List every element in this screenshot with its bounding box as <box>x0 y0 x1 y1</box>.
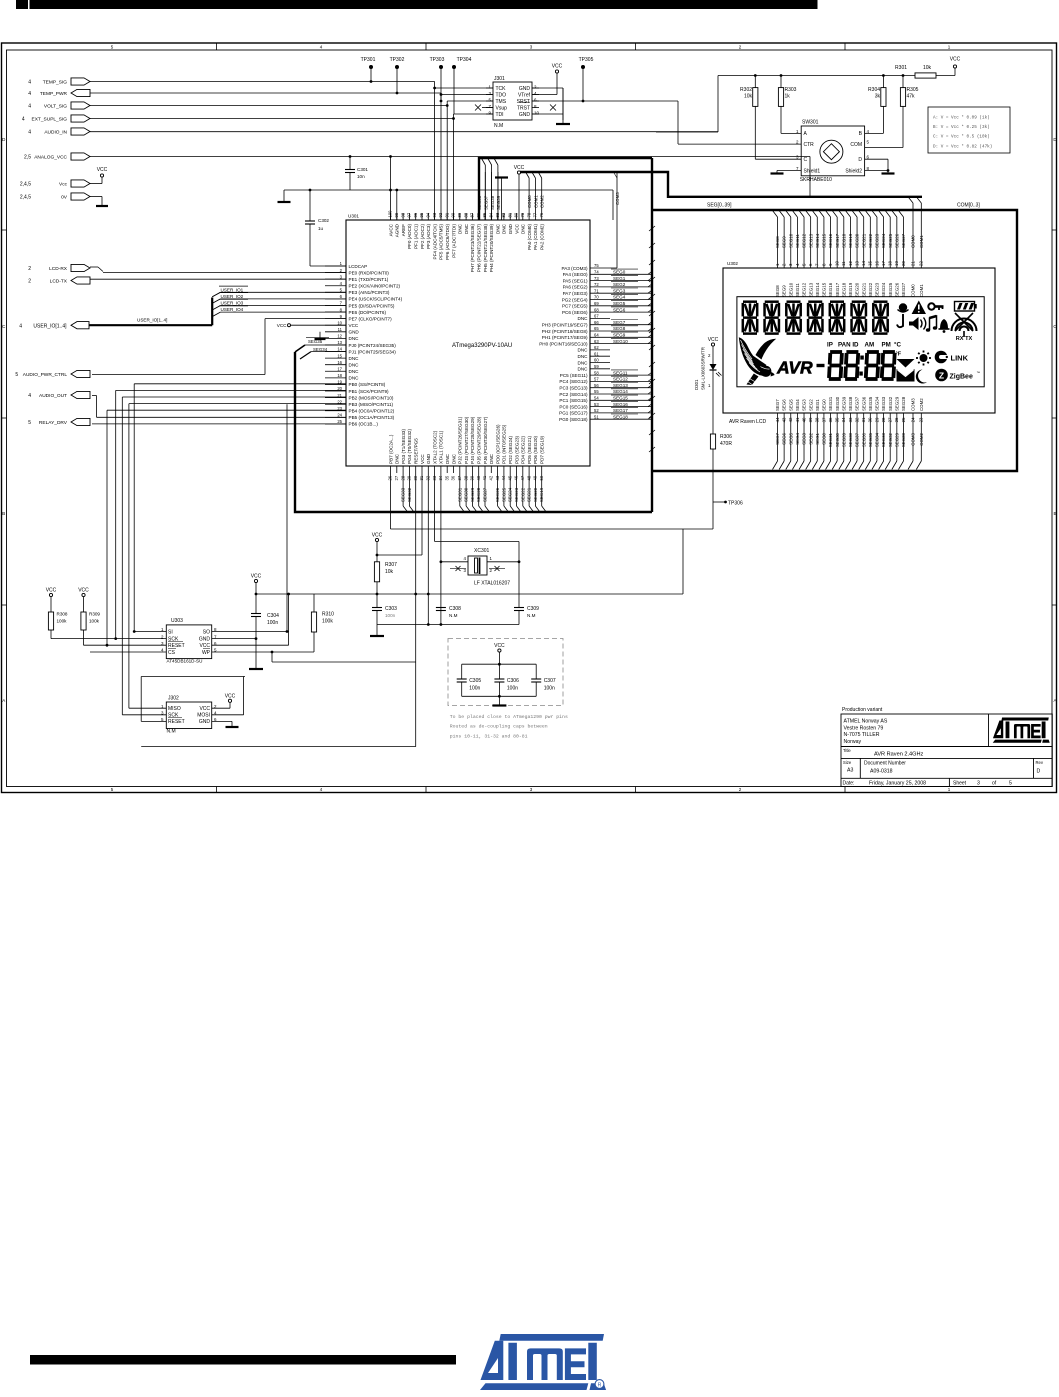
svg-text:RESET: RESET <box>168 719 185 725</box>
svg-text:PF7 (ADC7/TDI): PF7 (ADC7/TDI) <box>451 224 456 258</box>
svg-text:PC3 (SEG13): PC3 (SEG13) <box>559 386 588 391</box>
svg-text:20: 20 <box>901 261 906 266</box>
svg-text:VCC: VCC <box>199 706 210 712</box>
svg-text:DNC: DNC <box>349 356 360 361</box>
svg-text:LF XTAL016207: LF XTAL016207 <box>474 581 510 587</box>
svg-text:SEG5: SEG5 <box>788 432 793 444</box>
svg-text:SEG34: SEG34 <box>875 432 880 447</box>
svg-text:COM2: COM2 <box>919 398 924 411</box>
svg-text:SEG20: SEG20 <box>855 282 860 297</box>
svg-text:USER_IO3: USER_IO3 <box>221 301 244 306</box>
svg-text:PM: PM <box>882 342 891 349</box>
svg-text:VCC: VCC <box>78 588 89 594</box>
svg-text:MOSI: MOSI <box>197 713 210 719</box>
svg-text:C302: C302 <box>318 218 329 223</box>
svg-text:N.M: N.M <box>449 613 458 618</box>
svg-text:Document Number: Document Number <box>864 761 906 767</box>
svg-text:SEG3: SEG3 <box>613 288 626 293</box>
svg-text:PB1 (SCK/PCINT9): PB1 (SCK/PCINT9) <box>349 389 390 394</box>
svg-text:PC2 (SEG14): PC2 (SEG14) <box>559 392 588 397</box>
svg-text:100k: 100k <box>322 619 333 625</box>
svg-text:PAN ID: PAN ID <box>838 342 859 349</box>
svg-text:XTAL1 (TOSC1): XTAL1 (TOSC1) <box>439 430 444 464</box>
svg-text:VCC: VCC <box>225 694 236 700</box>
svg-text:C305: C305 <box>469 678 481 684</box>
svg-text:SEG33: SEG33 <box>881 396 886 411</box>
svg-text:DNC: DNC <box>445 453 450 464</box>
svg-text:GND: GND <box>426 453 431 464</box>
svg-text:56: 56 <box>594 383 599 388</box>
svg-text:28: 28 <box>881 417 886 422</box>
svg-text:10k: 10k <box>923 65 932 71</box>
svg-text:75: 75 <box>594 263 599 268</box>
svg-text:R307: R307 <box>385 562 397 568</box>
svg-text:DNC: DNC <box>495 223 500 234</box>
svg-text:SEG6: SEG6 <box>782 432 787 444</box>
svg-text:A09-0318: A09-0318 <box>870 769 893 775</box>
svg-text:SEG33: SEG33 <box>881 432 886 447</box>
svg-text:10: 10 <box>337 320 342 325</box>
svg-text:10k: 10k <box>744 94 753 100</box>
svg-text:DNC: DNC <box>349 336 360 341</box>
svg-text:VCC: VCC <box>46 588 57 594</box>
svg-text:PB0 (SS/PCINT8): PB0 (SS/PCINT8) <box>349 382 386 387</box>
svg-text:VCC: VCC <box>708 337 719 343</box>
svg-text:C: C <box>804 157 808 163</box>
svg-text:VCC: VCC <box>514 165 525 171</box>
svg-text:36: 36 <box>828 417 833 422</box>
svg-text:DNC: DNC <box>349 376 360 381</box>
svg-text:R309: R309 <box>89 612 100 617</box>
svg-text:SEG19: SEG19 <box>848 233 853 248</box>
svg-text:VCC: VCC <box>97 167 108 173</box>
svg-text:SEG11: SEG11 <box>795 234 800 248</box>
svg-text:SEG18: SEG18 <box>613 414 628 419</box>
svg-text:SEG35: SEG35 <box>868 396 873 411</box>
svg-text:SEG14: SEG14 <box>815 233 820 248</box>
svg-text:29: 29 <box>874 417 879 422</box>
svg-text:DNC: DNC <box>502 223 507 234</box>
svg-text:98: 98 <box>400 212 405 217</box>
svg-text:SEG14: SEG14 <box>815 282 820 297</box>
svg-text:SEG5: SEG5 <box>613 301 626 306</box>
svg-text:LCD-RX: LCD-RX <box>49 266 68 272</box>
svg-text:TDO: TDO <box>496 92 507 98</box>
svg-text:100n: 100n <box>507 686 518 692</box>
svg-text:SEG37: SEG37 <box>855 432 860 447</box>
svg-text:SEG3: SEG3 <box>802 432 807 444</box>
svg-text:SRST: SRST <box>517 99 530 105</box>
svg-text:PG1 (SEG17): PG1 (SEG17) <box>559 411 588 416</box>
svg-text:PE2 (XCK/AIN0/PCINT2): PE2 (XCK/AIN0/PCINT2) <box>349 284 401 289</box>
svg-text:SEG17: SEG17 <box>835 282 840 297</box>
svg-text:AGND: AGND <box>395 223 400 237</box>
svg-text:SEG5: SEG5 <box>788 399 793 411</box>
svg-text:92: 92 <box>438 212 443 217</box>
svg-text:B: V = Vcc * 0.25 (3k): B: V = Vcc * 0.25 (3k) <box>933 125 990 130</box>
svg-text:PJ4 (PCINT28/SEG29): PJ4 (PCINT28/SEG29) <box>470 416 475 464</box>
svg-text:PH5 (PCINT21/SEG38): PH5 (PCINT21/SEG38) <box>483 224 488 273</box>
svg-text:ATMEL Norway AS: ATMEL Norway AS <box>844 719 888 725</box>
svg-text:SEG7: SEG7 <box>775 432 780 444</box>
svg-text:34: 34 <box>841 417 846 422</box>
svg-text:AUDIO_PWR_CTRL: AUDIO_PWR_CTRL <box>23 372 68 378</box>
svg-text:SEG20: SEG20 <box>533 487 538 502</box>
svg-text:4: 4 <box>28 393 31 399</box>
svg-text:Size: Size <box>843 760 852 765</box>
svg-text:PC5 (SEG11): PC5 (SEG11) <box>560 373 588 378</box>
svg-text:ZigBee: ZigBee <box>950 374 973 381</box>
svg-text:5: 5 <box>1009 781 1012 787</box>
svg-text:N.M: N.M <box>527 613 536 618</box>
svg-text:3k: 3k <box>875 94 881 100</box>
svg-text:2,4,5: 2,4,5 <box>20 195 31 201</box>
svg-text:RESET/PG5: RESET/PG5 <box>414 438 419 464</box>
svg-text:SEG9: SEG9 <box>613 333 626 338</box>
svg-text:60: 60 <box>594 358 599 363</box>
svg-text:11: 11 <box>338 327 343 332</box>
svg-text:SEG9: SEG9 <box>782 236 787 248</box>
svg-text:Sheet: Sheet <box>953 781 967 787</box>
svg-text:PF2 (ADC2): PF2 (ADC2) <box>420 224 425 249</box>
svg-text:SEG38: SEG38 <box>848 432 853 447</box>
svg-text:SEG16: SEG16 <box>828 282 833 297</box>
svg-text:100n: 100n <box>469 686 480 692</box>
svg-text:SEG28: SEG28 <box>901 396 906 411</box>
svg-text:PD7 (SEG19): PD7 (SEG19) <box>540 435 545 464</box>
svg-text:Title: Title <box>843 748 851 753</box>
svg-text:10: 10 <box>835 261 840 266</box>
svg-text:17: 17 <box>337 366 342 371</box>
svg-text:SW301: SW301 <box>802 120 819 126</box>
svg-text:SEG4: SEG4 <box>795 399 800 411</box>
svg-text:SEG21: SEG21 <box>861 233 866 248</box>
svg-text:SEG23: SEG23 <box>875 233 880 248</box>
svg-text:VCC: VCC <box>552 64 563 70</box>
svg-text:DNC: DNC <box>578 367 589 372</box>
svg-text:COM0: COM0 <box>911 284 916 297</box>
svg-text:VCC: VCC <box>494 643 505 649</box>
svg-text:RELAY_DRV: RELAY_DRV <box>39 420 68 426</box>
svg-text:CTR: CTR <box>804 142 815 148</box>
svg-text:PB4 (OC0A/PCINT12): PB4 (OC0A/PCINT12) <box>349 409 395 414</box>
svg-text:Shield1: Shield1 <box>804 168 821 174</box>
svg-text:58: 58 <box>594 370 599 375</box>
svg-text:81: 81 <box>507 212 512 217</box>
svg-text:Rev: Rev <box>1036 760 1044 765</box>
svg-text:SEG18: SEG18 <box>841 282 846 297</box>
svg-text:SEG27: SEG27 <box>901 233 906 248</box>
svg-text:VCC: VCC <box>349 323 359 328</box>
svg-text:100n: 100n <box>267 620 278 626</box>
svg-text:SEG8: SEG8 <box>775 236 780 248</box>
svg-text:5: 5 <box>28 420 31 426</box>
svg-text:R303: R303 <box>785 87 797 93</box>
svg-text:PC6 (SEG6): PC6 (SEG6) <box>562 310 588 315</box>
svg-text:PB6 (OC1B...): PB6 (OC1B...) <box>349 422 379 427</box>
svg-text:35: 35 <box>444 475 449 480</box>
svg-text:SKRHABE010: SKRHABE010 <box>800 177 832 183</box>
svg-text:ATmega3290PV-10AU: ATmega3290PV-10AU <box>452 343 512 349</box>
svg-text:SEG26: SEG26 <box>894 282 899 297</box>
svg-text:SEG2: SEG2 <box>808 399 813 411</box>
svg-text:3: 3 <box>977 781 980 787</box>
svg-text:59: 59 <box>594 364 599 369</box>
svg-text:72: 72 <box>594 282 599 287</box>
svg-text:4: 4 <box>28 91 31 97</box>
svg-text:4: 4 <box>28 130 31 136</box>
svg-text:SEG9: SEG9 <box>782 285 787 297</box>
svg-text:PF4 (ADC4/TCK): PF4 (ADC4/TCK) <box>432 224 437 260</box>
svg-text:DNC: DNC <box>464 223 469 234</box>
svg-text:USER_IO4: USER_IO4 <box>221 307 244 312</box>
svg-text:°C: °C <box>894 342 901 349</box>
svg-text:SEG31: SEG31 <box>828 432 833 447</box>
svg-text:GND: GND <box>349 330 360 335</box>
svg-text:Production variant: Production variant <box>842 707 883 713</box>
svg-text:D: V = Vcc * 0.82 (47k): D: V = Vcc * 0.82 (47k) <box>933 144 992 149</box>
svg-text:SEG35: SEG35 <box>308 339 323 344</box>
svg-text:ANALOG_VCC: ANALOG_VCC <box>34 155 67 161</box>
svg-text:RX TX: RX TX <box>956 336 973 342</box>
svg-text:D: D <box>1037 769 1041 775</box>
svg-text:TP306: TP306 <box>728 501 743 507</box>
svg-text:40: 40 <box>801 417 806 422</box>
svg-text:VCC: VCC <box>251 574 262 580</box>
svg-text:TRST: TRST <box>517 105 530 111</box>
svg-text:13: 13 <box>854 261 859 266</box>
svg-text:To be placed close to ATmega12: To be placed close to ATmega1290 pwr pin… <box>450 714 568 720</box>
svg-text:CS: CS <box>168 650 176 656</box>
svg-text:DNC: DNC <box>578 348 589 353</box>
svg-text:96: 96 <box>413 212 418 217</box>
svg-text:SEG30: SEG30 <box>464 487 469 502</box>
svg-text:SEG32: SEG32 <box>407 487 412 502</box>
svg-text:PH0 (PCINT16/SEG10): PH0 (PCINT16/SEG10) <box>539 341 588 346</box>
svg-text:PE0 (RXD/PCINT0): PE0 (RXD/PCINT0) <box>349 270 390 275</box>
svg-text:Date:: Date: <box>843 781 855 787</box>
svg-text:97: 97 <box>407 212 412 217</box>
svg-text:100k: 100k <box>89 619 100 624</box>
svg-text:90: 90 <box>451 212 456 217</box>
svg-text:95: 95 <box>419 212 424 217</box>
svg-text:PD2 (SEG24): PD2 (SEG24) <box>508 435 513 464</box>
svg-text:SEG21: SEG21 <box>861 282 866 297</box>
svg-text:PB7 (OC2A...): PB7 (OC2A...) <box>388 434 393 464</box>
svg-text:DNC: DNC <box>349 369 360 374</box>
svg-text:TEMP_PWR: TEMP_PWR <box>40 91 68 97</box>
svg-text:PH6 (PCINT22/SEG37): PH6 (PCINT22/SEG37) <box>477 224 482 273</box>
svg-text:PA2 (COM2): PA2 (COM2) <box>540 224 545 250</box>
svg-text:N.M: N.M <box>167 729 176 735</box>
svg-text:VTref: VTref <box>518 92 531 98</box>
svg-text:U302: U302 <box>727 261 738 266</box>
svg-text:J302: J302 <box>168 696 179 702</box>
svg-text:SEG10: SEG10 <box>788 282 793 297</box>
svg-text:C303: C303 <box>385 606 397 612</box>
svg-text:COM3: COM3 <box>911 398 916 411</box>
svg-text:38: 38 <box>815 417 820 422</box>
svg-text:57: 57 <box>594 377 599 382</box>
svg-text:100k: 100k <box>57 619 68 624</box>
svg-text:15: 15 <box>337 353 342 358</box>
svg-text:XTAL2 (TOSC2): XTAL2 (TOSC2) <box>432 430 437 464</box>
svg-text:TEMP_SIG: TEMP_SIG <box>43 80 68 86</box>
svg-text:2: 2 <box>28 279 31 285</box>
svg-text:53: 53 <box>594 402 599 407</box>
svg-text:1u: 1u <box>318 226 324 231</box>
svg-text:D: D <box>858 157 862 163</box>
svg-text:TP301: TP301 <box>361 57 376 63</box>
svg-text:VOLT_SIG: VOLT_SIG <box>44 104 67 110</box>
svg-text:SEG24: SEG24 <box>881 282 886 297</box>
svg-text:54: 54 <box>594 396 599 401</box>
svg-text:470R: 470R <box>720 441 732 447</box>
svg-text:Norway: Norway <box>844 739 862 745</box>
svg-text:LCD-TX: LCD-TX <box>50 279 68 285</box>
svg-text:18: 18 <box>337 373 342 378</box>
svg-text:PA6 (SEG2): PA6 (SEG2) <box>563 285 588 290</box>
svg-text:of: of <box>992 781 997 787</box>
svg-text:62: 62 <box>594 345 599 350</box>
svg-text:COM1: COM1 <box>533 195 538 208</box>
svg-text:PJ6 (PCINT30/SEG27): PJ6 (PCINT30/SEG27) <box>483 416 488 464</box>
svg-text:74: 74 <box>594 270 599 275</box>
svg-text:SEG34: SEG34 <box>313 347 328 352</box>
svg-text:C308: C308 <box>449 606 461 612</box>
svg-text:47k: 47k <box>907 94 916 100</box>
svg-text:C: V = Vcc * 0.5 (10k): C: V = Vcc * 0.5 (10k) <box>933 135 990 140</box>
svg-text:100: 100 <box>388 210 393 218</box>
svg-text:SEG38: SEG38 <box>490 195 495 210</box>
svg-text:COM2: COM2 <box>919 432 924 445</box>
svg-text:J301: J301 <box>494 76 505 82</box>
svg-text:PJ1 (PCINT25/SEG34): PJ1 (PCINT25/SEG34) <box>349 349 397 354</box>
svg-text:SEG32: SEG32 <box>888 432 893 447</box>
svg-text:SEG6: SEG6 <box>613 307 626 312</box>
svg-text:C304: C304 <box>267 613 279 619</box>
svg-text:SEG8: SEG8 <box>775 285 780 297</box>
svg-text:COM: COM <box>850 142 862 148</box>
svg-text:PH2 (PCINT18/SEG8): PH2 (PCINT18/SEG8) <box>542 329 588 334</box>
svg-text:71: 71 <box>594 288 599 293</box>
svg-text:C306: C306 <box>507 678 519 684</box>
svg-text:SEG25: SEG25 <box>888 233 893 248</box>
svg-text:B: B <box>2 511 5 516</box>
svg-text:Vsup: Vsup <box>496 105 508 111</box>
svg-text:83: 83 <box>495 212 500 217</box>
svg-text:R308: R308 <box>57 612 68 617</box>
svg-text:SEG29: SEG29 <box>470 487 475 502</box>
svg-text:33: 33 <box>848 417 853 422</box>
svg-text:SO: SO <box>203 629 210 635</box>
svg-text:SEG25: SEG25 <box>888 282 893 297</box>
svg-text:VCC: VCC <box>950 57 961 63</box>
svg-text:PD3 (SEG23): PD3 (SEG23) <box>514 435 519 464</box>
svg-text:COM1: COM1 <box>919 284 924 297</box>
svg-text:91: 91 <box>444 212 449 217</box>
svg-text:SEG16: SEG16 <box>613 402 628 407</box>
svg-text:PG4 (T0/SEG32): PG4 (T0/SEG32) <box>407 429 412 464</box>
svg-text:42: 42 <box>489 475 494 480</box>
svg-text:PH7 (PCINT23/SEG36): PH7 (PCINT23/SEG36) <box>470 224 475 273</box>
svg-text:Vestre Rosten 79: Vestre Rosten 79 <box>844 725 884 731</box>
svg-text:SEG2: SEG2 <box>808 432 813 444</box>
svg-text:27: 27 <box>394 475 399 480</box>
svg-text:2: 2 <box>28 266 31 272</box>
svg-text:10k: 10k <box>385 569 394 575</box>
svg-text:PF3 (ADC3): PF3 (ADC3) <box>426 224 431 249</box>
svg-text:14: 14 <box>861 261 866 266</box>
svg-text:COM[0..3]: COM[0..3] <box>957 203 980 209</box>
svg-text:TCK: TCK <box>496 86 507 92</box>
svg-text:87: 87 <box>470 212 475 217</box>
svg-text:SEG15: SEG15 <box>822 233 827 248</box>
svg-text:100n: 100n <box>385 613 396 618</box>
svg-text:41: 41 <box>795 417 800 422</box>
svg-text:N.M: N.M <box>494 123 503 129</box>
svg-text:12: 12 <box>337 334 342 339</box>
svg-text:USER_IO[1..4]: USER_IO[1..4] <box>137 318 167 323</box>
svg-text:26: 26 <box>894 417 899 422</box>
svg-text:PD6 (SEG20): PD6 (SEG20) <box>533 435 538 464</box>
svg-text:SEG1: SEG1 <box>613 276 626 281</box>
svg-text:1k: 1k <box>785 94 791 100</box>
svg-text:SEG22: SEG22 <box>868 233 873 248</box>
svg-text:22: 22 <box>919 261 924 266</box>
svg-text:SEG36: SEG36 <box>477 195 482 210</box>
svg-text:94: 94 <box>426 212 431 217</box>
svg-text:MISO: MISO <box>168 706 181 712</box>
svg-text:VCC: VCC <box>372 533 383 539</box>
svg-text:24: 24 <box>910 417 915 422</box>
svg-text:DNC: DNC <box>395 453 400 464</box>
svg-text:A3: A3 <box>847 768 853 774</box>
svg-text:TMS: TMS <box>496 99 507 105</box>
svg-text:SEG30: SEG30 <box>835 396 840 411</box>
svg-text:U303: U303 <box>171 618 183 624</box>
svg-text:USER_IO2: USER_IO2 <box>221 294 244 299</box>
svg-text:TP305: TP305 <box>579 57 594 63</box>
svg-text:84: 84 <box>489 212 494 217</box>
svg-text:SEG19: SEG19 <box>848 282 853 297</box>
svg-text:AVR Raven LCD: AVR Raven LCD <box>729 419 767 425</box>
svg-text:SEG32: SEG32 <box>888 396 893 411</box>
svg-text:SEG38: SEG38 <box>848 396 853 411</box>
svg-text:SEG37: SEG37 <box>855 396 860 411</box>
svg-text:65: 65 <box>594 326 599 331</box>
svg-text:PC1 (SEG15): PC1 (SEG15) <box>559 398 588 403</box>
svg-text:61: 61 <box>594 351 599 356</box>
svg-text:COM0: COM0 <box>527 195 532 208</box>
svg-text:SEG15: SEG15 <box>822 282 827 297</box>
svg-text:PA5 (SEG1): PA5 (SEG1) <box>563 278 588 283</box>
svg-text:SEG14: SEG14 <box>613 389 628 394</box>
svg-text:PG2 (SEG4): PG2 (SEG4) <box>562 297 588 302</box>
svg-text:5: 5 <box>15 372 18 378</box>
svg-text:SEG6: SEG6 <box>782 399 787 411</box>
svg-text:LINK: LINK <box>951 354 969 363</box>
svg-text:PC4 (SEG12): PC4 (SEG12) <box>559 379 588 384</box>
svg-text:PE5 (DI/SDA/PCINT5): PE5 (DI/SDA/PCINT5) <box>349 303 395 308</box>
svg-text:PF1 (ADC1): PF1 (ADC1) <box>414 224 419 249</box>
svg-text:SI: SI <box>168 629 173 635</box>
svg-text:51: 51 <box>594 414 599 419</box>
svg-text:GND: GND <box>519 112 531 118</box>
svg-text:19: 19 <box>894 261 899 266</box>
svg-text:PE3 (AIN1/PCINT3): PE3 (AIN1/PCINT3) <box>349 290 390 295</box>
svg-text:SEG16: SEG16 <box>828 233 833 248</box>
